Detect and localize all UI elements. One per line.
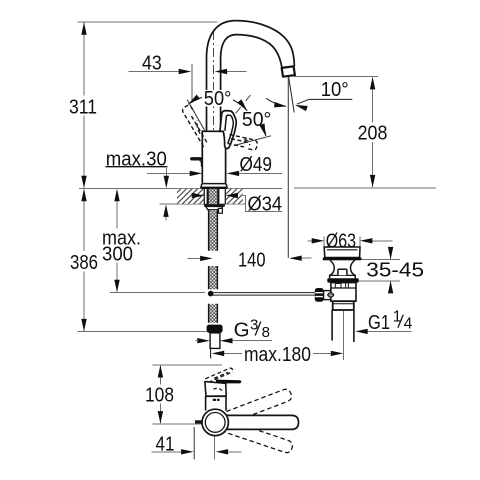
raised handle axis reference line xyxy=(187,100,204,131)
dimension max.300 line xyxy=(116,190,118,292)
Ø49 leader/underline right xyxy=(239,172,282,174)
drain: tailpipe xyxy=(332,310,354,342)
base flange xyxy=(201,184,227,188)
drain: locknut xyxy=(333,301,354,310)
drain: centre block xyxy=(338,269,347,275)
386 bottom extension (hose end level) xyxy=(78,331,207,333)
flexible hose segment 2 xyxy=(209,266,217,289)
10deg arrows xyxy=(274,102,287,109)
max.180 dimension line xyxy=(224,352,331,354)
svg-text:41: 41 xyxy=(156,432,175,455)
G3/8 thread xyxy=(210,333,220,349)
50deg arc arrows xyxy=(187,95,200,107)
svg-text:108: 108 xyxy=(145,383,174,406)
311 arrows xyxy=(81,22,86,35)
faucet body xyxy=(202,131,225,184)
dimension 43 line xyxy=(128,71,246,73)
41 extension left (pin) xyxy=(193,427,195,459)
svg-text:43: 43 xyxy=(142,52,162,75)
spout tube outer edge xyxy=(207,21,295,132)
rod cylinder into drain xyxy=(324,291,331,300)
35-45 arrow stems xyxy=(390,247,392,293)
spout tube inner edge xyxy=(221,35,282,132)
G1 1/4 leader xyxy=(367,330,411,332)
svg-text:Ø49: Ø49 xyxy=(240,153,273,176)
Ø49 leader left xyxy=(147,172,190,174)
svg-text:Ø34: Ø34 xyxy=(248,193,283,216)
rod guide block xyxy=(219,208,223,213)
208 arrows xyxy=(370,77,375,90)
35-45 arrows xyxy=(388,247,393,260)
140 dimension line right tail xyxy=(302,257,312,259)
handle base body xyxy=(205,382,226,397)
208 dimension line xyxy=(372,78,374,188)
drain: neck right xyxy=(351,260,356,278)
counter section hatching right of faucet xyxy=(225,189,243,204)
208 top extension (outlet level) xyxy=(294,75,378,77)
horizontal pop-up rod (double line) xyxy=(211,293,315,296)
flexible hose segment 3 xyxy=(209,304,217,323)
handle dashed raised position (left) xyxy=(183,105,207,146)
41 extension right (faucet centre) xyxy=(213,436,215,460)
max.180 arrows xyxy=(212,351,225,356)
max.30 arrow stems xyxy=(165,168,167,221)
Ø34 leader right + label bracket xyxy=(238,196,282,212)
svg-text:35-45: 35-45 xyxy=(366,258,424,281)
max.30 arrows xyxy=(164,176,169,189)
drain: flange bold lip xyxy=(323,257,362,260)
Ø63 extension stubs xyxy=(324,237,360,247)
counter bottom line xyxy=(160,203,246,205)
body ring outer xyxy=(202,409,228,435)
Ø34 arrows xyxy=(192,193,205,198)
outlet vertical line (spout axis extension) xyxy=(287,77,289,258)
svg-text:50°: 50° xyxy=(204,87,232,110)
svg-text:300: 300 xyxy=(102,243,133,266)
handle dashed lowered position (right) xyxy=(228,135,258,150)
dashed raised handle xyxy=(205,368,233,382)
svg-text:max.180: max.180 xyxy=(244,343,311,366)
spout bar (solid) xyxy=(216,415,299,429)
pivot ball xyxy=(328,293,334,297)
base gasket line xyxy=(201,187,226,189)
140 arrows xyxy=(200,256,213,261)
svg-text:311: 311 xyxy=(69,96,97,119)
body ring inner xyxy=(205,413,225,433)
outlet 10-degree tilted line xyxy=(289,77,295,113)
aerator tip xyxy=(282,66,295,76)
108 arrows xyxy=(158,365,163,378)
108 top extension xyxy=(153,364,223,366)
threaded shank in counter (braid + edges) xyxy=(209,189,218,204)
max.300 bottom extension (rod level) xyxy=(110,291,205,293)
dimension 386 line xyxy=(83,190,85,332)
handle lever inner line xyxy=(225,115,233,143)
140 dimension line left xyxy=(188,257,201,259)
svg-text:4: 4 xyxy=(404,316,413,333)
386 arrows xyxy=(81,189,86,202)
drain: clamp band xyxy=(327,278,358,282)
svg-text:8: 8 xyxy=(262,324,270,341)
41 dimension line xyxy=(152,451,242,453)
top extension line (spout top level) xyxy=(78,21,218,23)
50 degree arc (left, between raised positions) xyxy=(188,96,247,111)
pop-up rod knob (knurled) xyxy=(315,288,324,302)
108 dimension line xyxy=(159,366,161,423)
Ø63 dimension line xyxy=(308,240,393,242)
43 extension line (handle tip) xyxy=(191,64,193,103)
41 arrows xyxy=(181,449,194,454)
G1 1/4 arrow xyxy=(355,329,368,334)
counter section hatching left of faucet xyxy=(177,189,204,204)
handle lever (solid, mid position) xyxy=(220,111,236,149)
handle lever bar (black) xyxy=(216,380,242,384)
drain: top flange xyxy=(324,247,360,258)
Ø49 arrows xyxy=(190,171,203,176)
svg-text:Ø63: Ø63 xyxy=(326,229,356,252)
10 degree angle arc xyxy=(266,98,286,106)
43 arrows xyxy=(179,69,192,74)
G3/8 hose end fitting xyxy=(207,325,223,333)
dimension 311 line xyxy=(83,23,85,188)
text backgrounds xyxy=(69,90,426,404)
counter hole edges xyxy=(204,188,225,204)
mounting nut below counter xyxy=(204,204,225,206)
50 degree second arc stub xyxy=(264,129,266,136)
svg-text:386: 386 xyxy=(70,251,98,274)
lowered handle axis reference line xyxy=(234,136,271,146)
35-45 top extension xyxy=(359,259,400,261)
Ø34 leader left xyxy=(179,195,192,197)
flexible hose segment 1 xyxy=(209,210,217,251)
max.300 arrows xyxy=(114,189,119,202)
drain: shoulder line xyxy=(331,274,355,276)
svg-text:50°: 50° xyxy=(242,108,271,131)
svg-text:10°: 10° xyxy=(321,78,349,101)
faucet centreline xyxy=(213,31,215,187)
Ø63 arrows xyxy=(312,238,325,243)
svg-text:140: 140 xyxy=(238,249,266,272)
dashed swivel spout down xyxy=(220,419,294,454)
drain: body xyxy=(331,283,356,302)
dashed swivel spout up xyxy=(219,388,293,426)
108 bottom extension xyxy=(153,423,209,425)
max.180 extension right (drain centre) xyxy=(343,311,345,360)
svg-text:208: 208 xyxy=(358,122,388,145)
pop-up rod junction dot xyxy=(208,291,214,297)
counter top line xyxy=(79,187,282,189)
G3/8 arrows xyxy=(197,338,210,343)
handle axis centreline xyxy=(226,95,251,126)
thread end extension line xyxy=(210,349,212,359)
drain: neck left xyxy=(330,260,335,278)
svg-text:G1: G1 xyxy=(368,311,390,334)
pop-up rod pin (rear) xyxy=(195,420,203,423)
10 degree leader line xyxy=(297,99,352,104)
faucet body front xyxy=(206,396,226,410)
35-45 bottom extension xyxy=(355,280,400,282)
50deg second arrow xyxy=(259,123,268,137)
pop-up rod knob on body xyxy=(192,157,200,160)
G3/8 leaders xyxy=(196,340,273,342)
208 bottom extension (counter level right) xyxy=(294,187,436,189)
svg-text:G: G xyxy=(234,318,250,341)
